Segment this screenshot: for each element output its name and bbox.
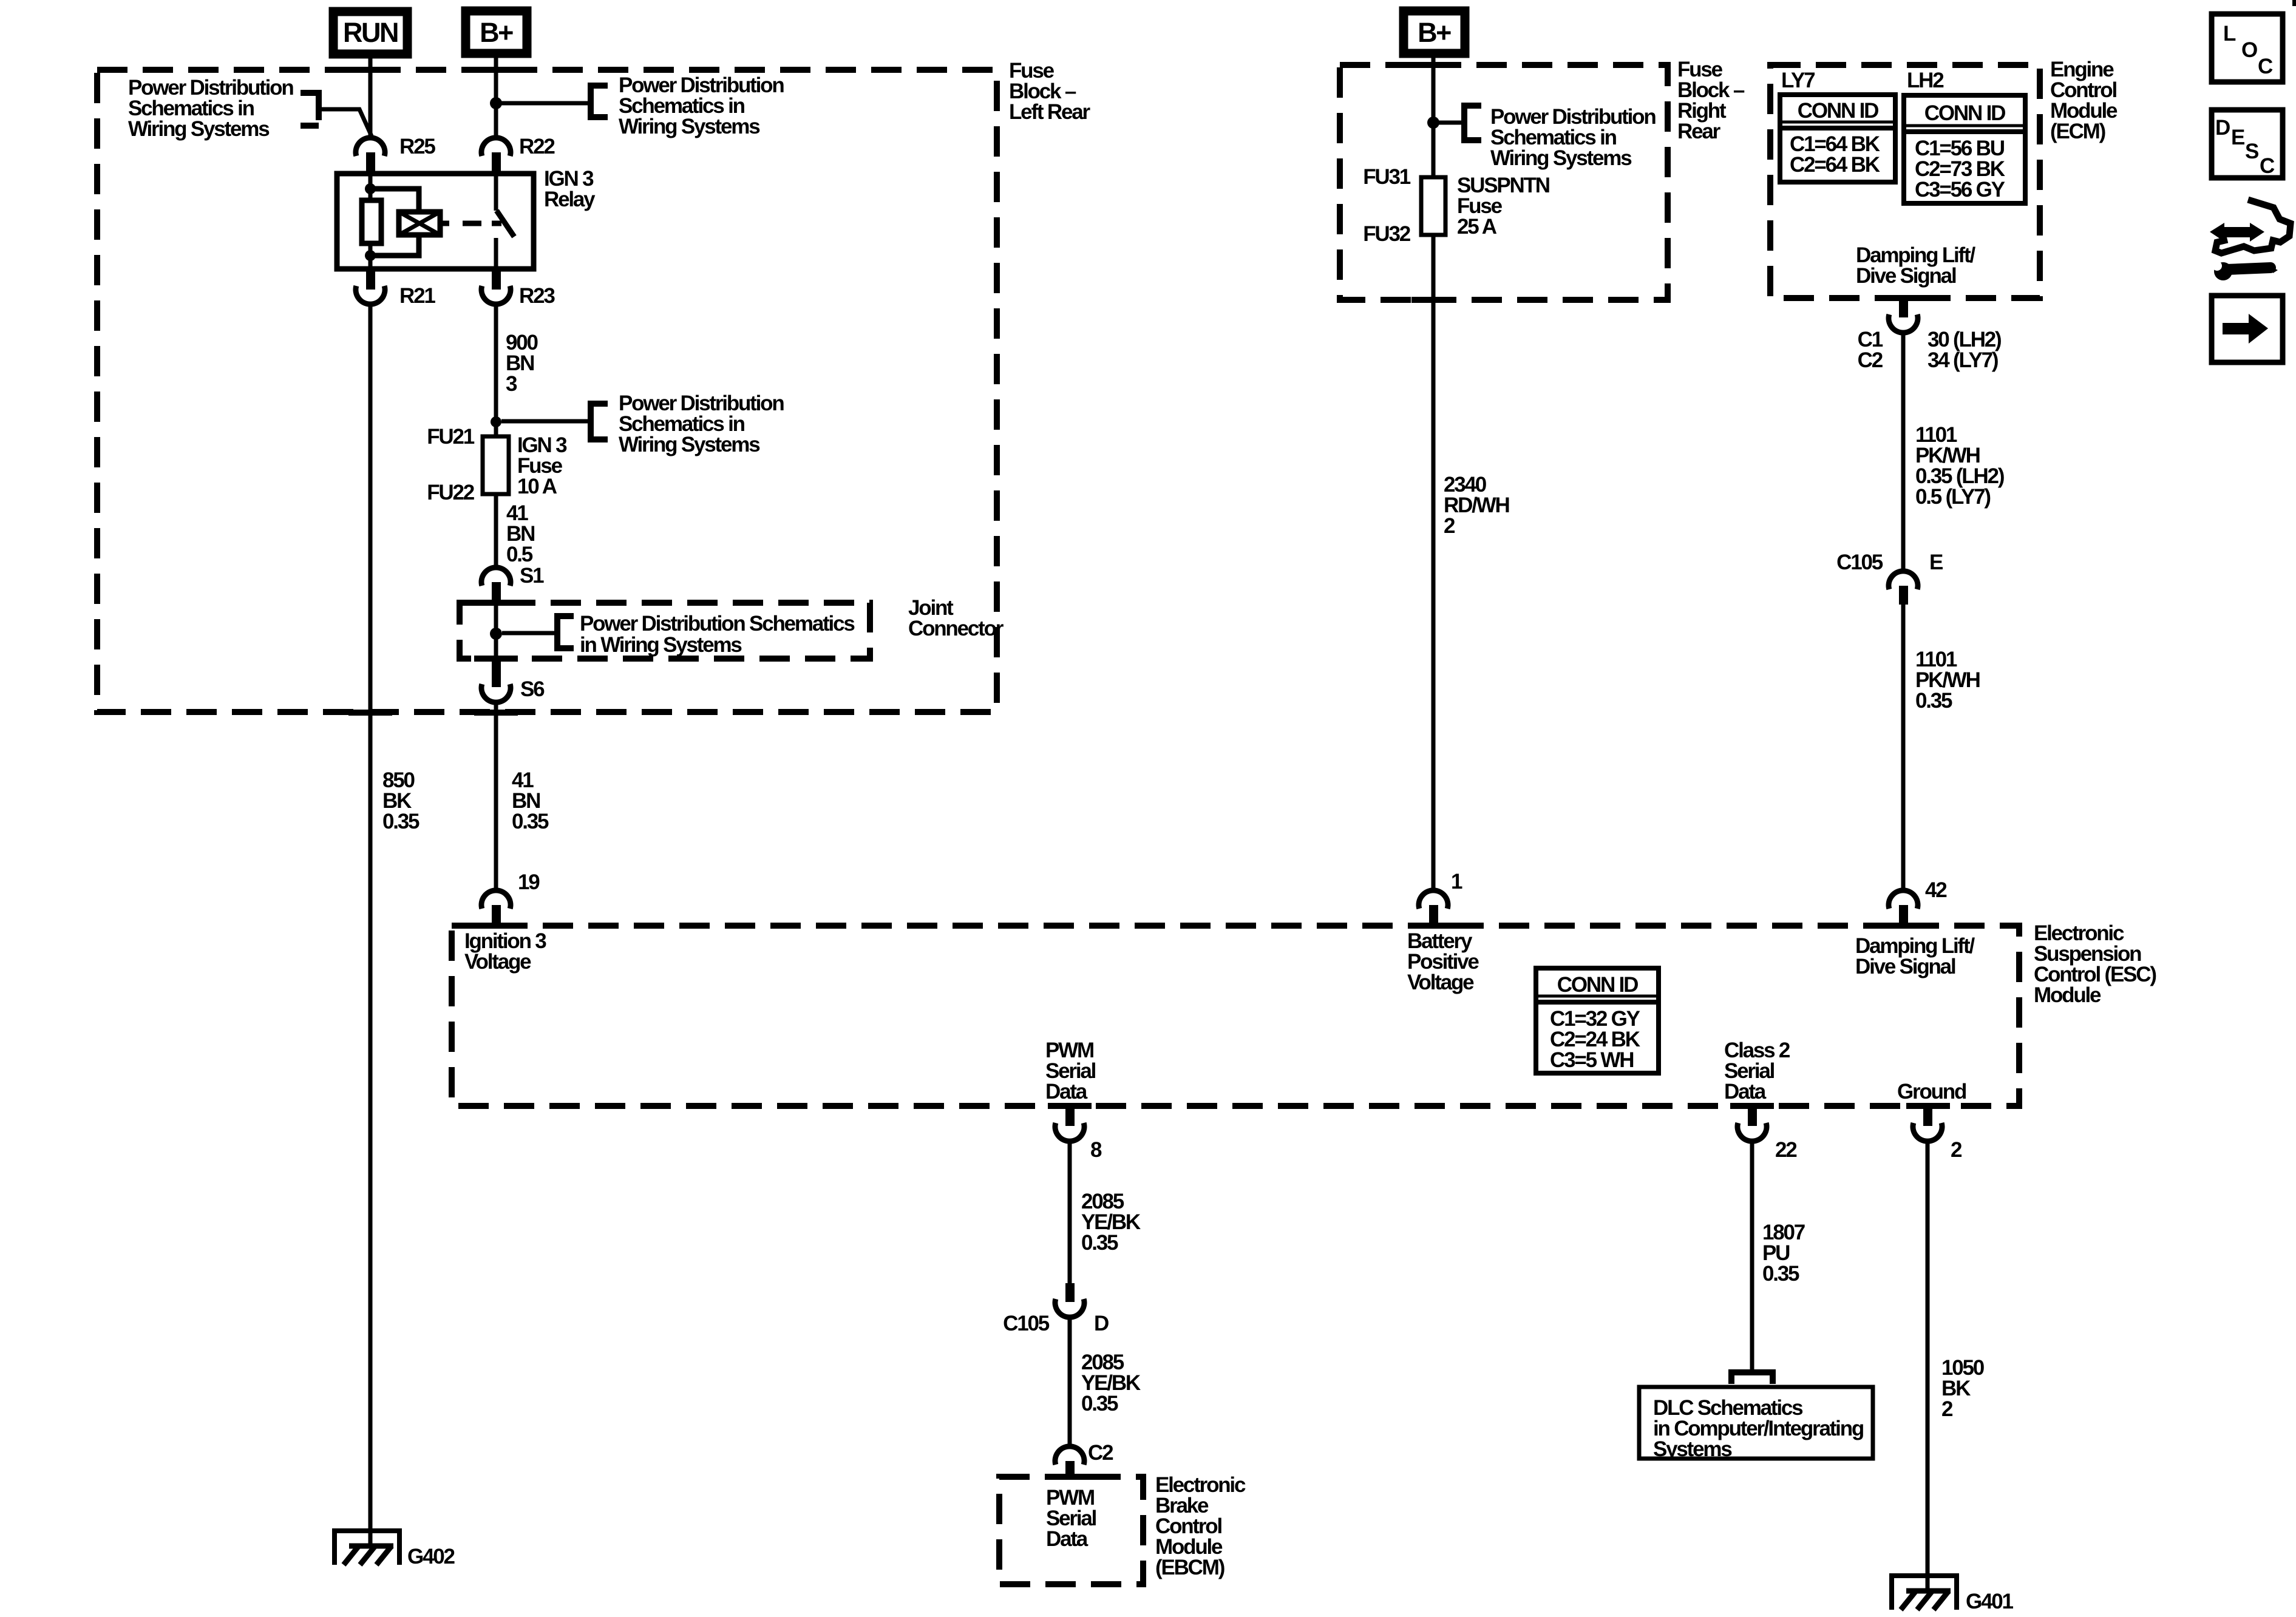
- wire label 1807 PU 0.35: [1762, 1221, 1805, 1286]
- DLC schematics reference box: [1639, 1387, 1873, 1461]
- wire pin 2 to ground G401: [1926, 1141, 1930, 1592]
- ESC CONN ID table: [1536, 968, 1659, 1073]
- wire junction to bracket (joint): [502, 631, 557, 636]
- svg-text:C3=56 GY: C3=56 GY: [1915, 178, 2005, 202]
- svg-text:8: 8: [1090, 1138, 1102, 1162]
- svg-text:Module: Module: [2034, 983, 2101, 1007]
- label: Electronic Suspension Control (ESC) Module: [2034, 921, 2156, 1007]
- wire from bracket to R25: [319, 109, 372, 136]
- junction on B+ wire: [490, 97, 502, 109]
- svg-text:FU31: FU31: [1363, 165, 1411, 189]
- LY7 CONN ID table: [1780, 95, 1895, 182]
- svg-text:R25: R25: [399, 135, 435, 158]
- label: Power Distribution Schematics in Wiring Systems (fuse feed): [619, 392, 784, 456]
- electronic suspension control ESC module (dashed enclosure): [452, 926, 2019, 1106]
- label: Fuse Block - Right Rear: [1677, 58, 1745, 143]
- connector R25: [356, 135, 435, 175]
- svg-text:3: 3: [506, 372, 517, 396]
- connector R22: [481, 135, 555, 175]
- pin 22 connector at ESC: [1737, 1106, 1797, 1162]
- svg-text:C2: C2: [1088, 1441, 1113, 1465]
- svg-text:S1: S1: [520, 564, 544, 588]
- pin 1 connector at ESC: [1419, 870, 1462, 928]
- wire label 1101 PK/WH 0.35 (LH2) 0.5 (LY7): [1915, 423, 2004, 509]
- ground G402: [333, 1528, 455, 1568]
- svg-text:G402: G402: [407, 1545, 455, 1568]
- svg-text:C2=64 BK: C2=64 BK: [1790, 153, 1880, 177]
- svg-text:Connector: Connector: [908, 617, 1004, 640]
- wire label 2340 RD/WH 2: [1444, 473, 1509, 538]
- svg-text:S6: S6: [520, 677, 545, 701]
- fuse block - left rear (dashed enclosure): [97, 70, 997, 712]
- wire junction to bracket (right rear): [1433, 121, 1464, 125]
- reference bracket (left label): [301, 90, 319, 129]
- pin C2 connector at EBCM: [1055, 1441, 1113, 1480]
- svg-text:FU32: FU32: [1363, 222, 1411, 246]
- svg-text:B+: B+: [480, 17, 513, 48]
- label: Power Distribution Schematics in Wiring Systems (joint): [580, 612, 855, 657]
- label: Power Distribution Schematics in Wiring Systems (top middle): [619, 73, 784, 138]
- coil actuator stub: [440, 221, 449, 226]
- label: Power Distribution Schematics in Wiring Systems (right rear): [1490, 105, 1656, 170]
- wire R23 to fuse FU21: [494, 304, 498, 436]
- svg-text:Wiring Systems: Wiring Systems: [619, 115, 760, 138]
- svg-text:in Wiring Systems: in Wiring Systems: [580, 633, 742, 657]
- svg-text:Wiring Systems: Wiring Systems: [619, 433, 760, 456]
- wire pin 22 to DLC reference: [1750, 1141, 1754, 1369]
- joint connector (dashed box): [460, 603, 870, 659]
- svg-text:0.35: 0.35: [382, 810, 419, 833]
- svg-text:B+: B+: [1418, 17, 1451, 48]
- label: PWM Serial Data (ESC): [1045, 1039, 1096, 1103]
- connector R21: [356, 269, 435, 308]
- svg-text:Wiring Systems: Wiring Systems: [1490, 146, 1632, 170]
- svg-text:CONN ID: CONN ID: [1557, 973, 1638, 997]
- svg-text:Voltage: Voltage: [464, 950, 531, 974]
- svg-text:LH2: LH2: [1907, 69, 1944, 92]
- switch arm: [492, 211, 514, 237]
- pin 42 connector at ESC: [1889, 878, 1947, 928]
- fuse FU31/FU32: SUSPNTN Fuse 25 A: [1363, 165, 1549, 246]
- svg-text:C2: C2: [1858, 348, 1883, 372]
- in-line connector C105 pin E: [1836, 551, 1943, 605]
- icon: DESC box: [2212, 110, 2283, 178]
- wire label 850 BK 0.35: [382, 768, 419, 833]
- wire C105 E to ESC pin 42: [1901, 605, 1906, 890]
- fuse FU21/FU22: IGN 3 Fuse 10 A: [427, 425, 567, 504]
- wire label 900 BN 3: [506, 331, 538, 396]
- ECM output pin (30/34): [1858, 298, 2001, 372]
- off-page connector above DLC box: [1731, 1372, 1773, 1384]
- splice S6: [481, 662, 545, 702]
- relay coil feed wire: [369, 175, 373, 200]
- label: Battery Positive Voltage: [1407, 929, 1479, 994]
- actuator dashed link: [463, 221, 481, 226]
- switch fixed contact (from B+): [494, 175, 498, 211]
- pin 2 connector at ESC: [1913, 1106, 1962, 1162]
- wire label 41 BN 0.35: [512, 768, 549, 833]
- wire resistor bottom: [369, 243, 373, 269]
- svg-text:2: 2: [1444, 514, 1455, 538]
- wire pin 8 to C105 D: [1068, 1141, 1072, 1283]
- reference bracket (top middle): [591, 83, 608, 120]
- wire relay coil (bottom branch): [370, 235, 419, 256]
- svg-text:D: D: [1094, 1312, 1109, 1335]
- label: Damping Lift/ Dive Signal (ESC): [1855, 934, 1975, 978]
- pin 8 connector at ESC: [1055, 1106, 1102, 1162]
- node: junction above fuse: [491, 416, 501, 427]
- wire B+ to fuse FU31: [1432, 53, 1436, 177]
- wire ECM to C105 E: [1901, 333, 1906, 571]
- svg-text:C105: C105: [1836, 551, 1883, 574]
- wire FU32 to ESC pin 1: [1432, 235, 1436, 890]
- svg-text:Systems: Systems: [1653, 1437, 1732, 1461]
- node B+ (battery feed, right): [1404, 11, 1465, 53]
- wire B+ to R22: [494, 53, 498, 138]
- svg-text:LY7: LY7: [1781, 69, 1815, 92]
- svg-text:0.35: 0.35: [1081, 1231, 1118, 1255]
- svg-text:19: 19: [518, 870, 540, 894]
- svg-text:0.5: 0.5: [506, 543, 533, 566]
- LH2 CONN ID table: [1904, 95, 2025, 203]
- label: Engine Control Module (ECM): [2050, 58, 2118, 143]
- svg-text:G401: G401: [1966, 1590, 2014, 1613]
- svg-text:C3=5 WH: C3=5 WH: [1550, 1048, 1633, 1072]
- svg-text:0.5 (LY7): 0.5 (LY7): [1915, 485, 1990, 509]
- icon: arrow box: [2212, 296, 2283, 362]
- svg-text:O: O: [2241, 38, 2257, 62]
- connector R23: [481, 269, 555, 308]
- label: Damping Lift/ Dive Signal (ECM): [1856, 243, 1975, 288]
- svg-text:Dive Signal: Dive Signal: [1856, 264, 1956, 288]
- svg-text:0.35: 0.35: [1081, 1392, 1118, 1415]
- svg-text:Rear: Rear: [1677, 120, 1721, 143]
- wire label 1050 BK 2: [1941, 1356, 1985, 1421]
- svg-text:Left Rear: Left Rear: [1009, 100, 1090, 124]
- label: Ignition 3 Voltage: [464, 929, 546, 974]
- svg-text:C: C: [2258, 55, 2273, 78]
- svg-text:FU21: FU21: [427, 425, 475, 449]
- wire S6 to ESC pin 19: [494, 702, 498, 890]
- node RUN (ignition RUN feed): [333, 12, 407, 54]
- svg-text:RUN: RUN: [343, 17, 398, 48]
- wire RUN to R25: [369, 54, 373, 138]
- label: Power Distribution Schematics in Wiring Systems (left): [128, 76, 293, 141]
- svg-text:0.35: 0.35: [1762, 1262, 1799, 1286]
- svg-text:R21: R21: [399, 284, 435, 308]
- resistor (relay suppression): [362, 200, 381, 243]
- svg-text:10 A: 10 A: [517, 475, 557, 498]
- svg-text:Ground: Ground: [1897, 1080, 1966, 1103]
- reference bracket (right rear): [1464, 103, 1481, 143]
- fuse block - right rear (dashed enclosure): [1340, 65, 1668, 300]
- wire junction to bracket (fuse): [501, 419, 591, 424]
- svg-text:E: E: [2231, 126, 2244, 149]
- svg-text:Data: Data: [1046, 1527, 1089, 1551]
- svg-text:2: 2: [1941, 1397, 1953, 1421]
- reference bracket (joint): [557, 613, 574, 651]
- svg-text:D: D: [2215, 116, 2230, 140]
- svg-text:Data: Data: [1724, 1080, 1767, 1103]
- svg-text:Power Distribution Schematics: Power Distribution Schematics: [580, 612, 855, 636]
- icon: car with arrow and wrench: [2210, 200, 2291, 280]
- wire label 41 BN 0.5: [506, 501, 534, 566]
- svg-text:E: E: [1929, 551, 1943, 574]
- svg-text:C: C: [2260, 154, 2275, 178]
- in-line connector C105 pin D: [1003, 1283, 1109, 1335]
- svg-text:Data: Data: [1045, 1080, 1088, 1103]
- label: Fuse Block - Left Rear: [1009, 59, 1090, 124]
- svg-text:Wiring Systems: Wiring Systems: [128, 117, 270, 141]
- svg-text:42: 42: [1925, 878, 1947, 902]
- wire S1 through joint connector: [494, 605, 498, 662]
- svg-text:0.35: 0.35: [512, 810, 549, 833]
- wire C105 D to EBCM C2: [1068, 1317, 1072, 1446]
- label: Joint Connector: [908, 596, 1004, 640]
- svg-text:1: 1: [1451, 870, 1462, 893]
- node B+ (battery feed, left): [466, 11, 527, 53]
- svg-text:S: S: [2245, 140, 2258, 163]
- icon: LOC box: [2212, 14, 2283, 82]
- switch output contact: [494, 238, 498, 269]
- wire 850 BK to ground G402: [369, 304, 373, 1546]
- label: Electronic Brake Control Module (EBCM): [1155, 1473, 1246, 1579]
- wire fuse to S1: [494, 494, 498, 568]
- wire label 2085 YE/BK 0.35 (upper): [1081, 1190, 1141, 1255]
- electronic brake control module EBCM (dashed enclosure): [999, 1477, 1143, 1584]
- svg-text:(ECM): (ECM): [2050, 120, 2105, 143]
- label: PWM Serial Data (EBCM): [1046, 1486, 1096, 1551]
- reference bracket (fuse feed): [591, 401, 608, 442]
- svg-text:L: L: [2223, 22, 2236, 46]
- svg-text:25 A: 25 A: [1457, 215, 1497, 239]
- ground G401: [1890, 1573, 2014, 1613]
- wire label 1101 PK/WH 0.35: [1915, 648, 1980, 713]
- relay coil (solenoid box with X): [399, 212, 440, 235]
- wire label 2085 YE/BK 0.35 (lower): [1081, 1351, 1141, 1415]
- svg-text:(EBCM): (EBCM): [1155, 1556, 1224, 1579]
- dash segments at wire crossings: [348, 67, 392, 73]
- wire to relay coil (top branch): [370, 189, 419, 212]
- svg-text:C105: C105: [1003, 1312, 1050, 1335]
- svg-text:Voltage: Voltage: [1407, 971, 1474, 994]
- wire junction to bracket (top middle): [496, 101, 591, 106]
- svg-text:22: 22: [1775, 1138, 1797, 1162]
- node: joint connector junction: [490, 628, 502, 640]
- label: Class 2 Serial Data: [1724, 1039, 1790, 1103]
- page corner mark: [2292, 0, 2296, 6]
- svg-text:R23: R23: [519, 284, 555, 308]
- node: coil top junction: [365, 183, 376, 194]
- junction above FU31: [1427, 117, 1439, 129]
- pin 19 connector at ESC: [481, 870, 540, 928]
- node: coil bottom junction: [365, 250, 376, 261]
- svg-text:R22: R22: [519, 135, 555, 158]
- svg-text:FU22: FU22: [427, 481, 475, 504]
- svg-text:Dive Signal: Dive Signal: [1855, 955, 1955, 978]
- svg-text:CONN ID: CONN ID: [1924, 101, 2005, 125]
- svg-text:Relay: Relay: [544, 188, 596, 211]
- engine control module ECM (dashed enclosure): [1770, 65, 2040, 298]
- svg-text:0.35: 0.35: [1915, 689, 1952, 713]
- svg-text:2: 2: [1951, 1138, 1962, 1162]
- svg-text:CONN ID: CONN ID: [1798, 99, 1878, 123]
- svg-text:34 (LY7): 34 (LY7): [1927, 348, 1998, 372]
- splice S1: [481, 564, 544, 605]
- relay: IGN 3 Relay: [337, 167, 596, 269]
